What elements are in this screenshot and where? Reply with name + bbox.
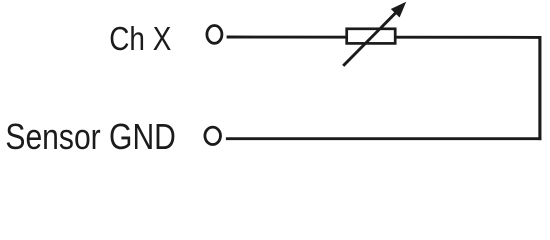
wire top horizontal from Ch X terminal to right corner <box>227 36 540 39</box>
node Ch X <box>109 20 171 57</box>
wire bottom horizontal from Sensor GND terminal to right corner <box>226 137 542 140</box>
svg-text:Ch X: Ch X <box>109 20 171 57</box>
terminal Ch X (open circle) <box>207 26 222 44</box>
svg-text:Sensor GND: Sensor GND <box>5 116 176 157</box>
node Sensor GND <box>5 116 176 157</box>
resistor R (variable) body <box>347 29 396 44</box>
resistor R (variable) wiper arrow <box>343 2 406 66</box>
terminal Sensor GND (open circle) <box>205 127 221 144</box>
wire right vertical <box>538 36 541 140</box>
